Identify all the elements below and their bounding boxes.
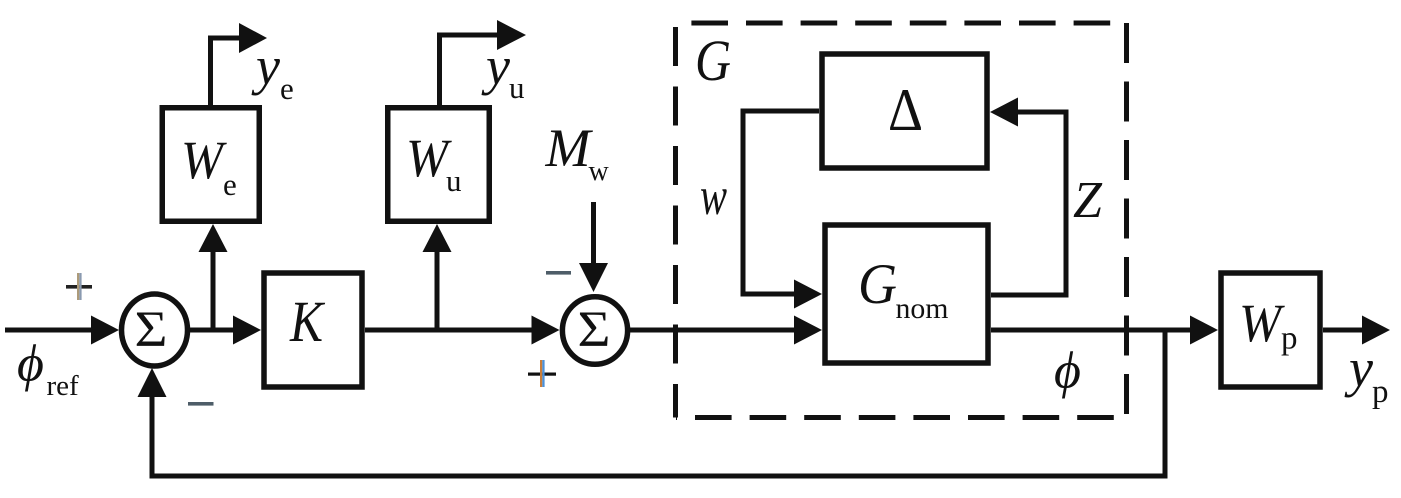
svg-text:p: p [1281, 321, 1298, 357]
svg-text:K: K [289, 289, 326, 354]
svg-text:w: w [700, 166, 727, 226]
svg-text:G: G [695, 28, 731, 93]
svg-text:ϕ: ϕ [1054, 343, 1081, 400]
svg-text:Z: Z [1073, 172, 1103, 229]
svg-text:Δ: Δ [888, 77, 923, 143]
svg-text:W: W [181, 130, 228, 190]
svg-text:Σ: Σ [578, 302, 611, 358]
svg-text:ϕ: ϕ [17, 336, 44, 393]
svg-text:nom: nom [896, 292, 949, 325]
svg-text:y: y [481, 36, 510, 96]
svg-text:G: G [858, 253, 897, 316]
svg-text:u: u [509, 70, 525, 105]
svg-text:w: w [589, 156, 610, 187]
svg-text:W: W [1239, 293, 1286, 353]
svg-text:y: y [1344, 338, 1373, 398]
svg-text:Σ: Σ [135, 302, 168, 358]
svg-text:M: M [545, 118, 594, 178]
svg-text:u: u [446, 163, 462, 198]
svg-text:e: e [223, 167, 237, 202]
svg-text:y: y [251, 36, 280, 96]
svg-text:ref: ref [47, 370, 80, 402]
svg-text:p: p [1372, 374, 1389, 410]
svg-text:e: e [280, 71, 294, 106]
